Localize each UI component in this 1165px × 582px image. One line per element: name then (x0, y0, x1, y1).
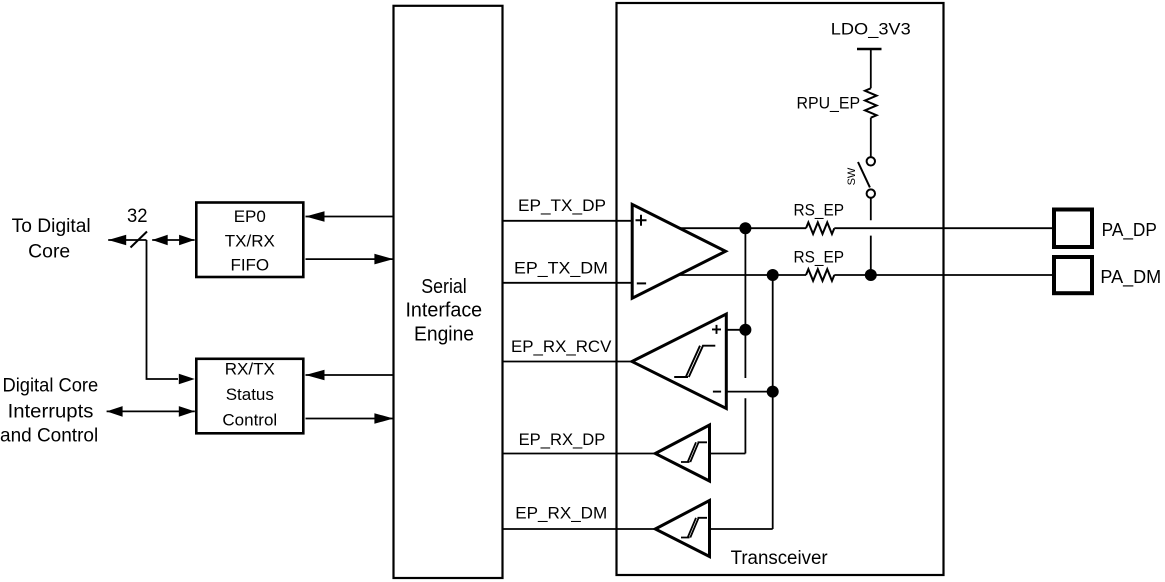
wire LDO to resistor (870, 49, 872, 88)
wire EP_TX_DM (503, 282, 631, 284)
block EP0 TX/RX FIFO (196, 203, 303, 278)
svg-text:Status: Status (226, 385, 274, 404)
svg-text:Interrupts: Interrupts (8, 402, 94, 423)
svg-text:RS_EP: RS_EP (794, 201, 845, 220)
arrowhead into RX/TX status box (179, 374, 195, 385)
svg-text:LDO_3V3: LDO_3V3 (831, 20, 911, 39)
svg-text:Control: Control (222, 411, 277, 430)
wire resistor to switch (870, 118, 872, 157)
switch SW blade (858, 162, 870, 187)
wire switch down to DM line (hops over DP line) (870, 198, 872, 275)
wire EP_RX_DM (503, 528, 656, 530)
svg-text:EP_TX_DM: EP_TX_DM (514, 259, 608, 278)
wire DP to PA_DP (834, 227, 1052, 229)
svg-text:EP0: EP0 (234, 207, 266, 226)
wire double arrow bus to EP0 FIFO (152, 239, 194, 241)
svg-text:Serial: Serial (421, 276, 467, 298)
switch SW bottom contact (867, 189, 875, 197)
node - input junction (767, 386, 779, 398)
svg-text:TX/RX: TX/RX (225, 231, 275, 250)
buffer EP_RX_DM receiver (655, 501, 709, 557)
svg-text:Engine: Engine (414, 324, 474, 346)
svg-text:Transceiver: Transceiver (731, 548, 829, 569)
label Digital Core Interrupts and Control (0, 376, 98, 447)
svg-text:32: 32 (127, 206, 148, 227)
node DM junction (767, 269, 779, 281)
wire DM buffer input from rail (710, 528, 773, 530)
svg-text:PA_DP: PA_DP (1102, 219, 1157, 241)
wire EP_RX_DP (503, 453, 656, 455)
wire double arrow digital core interrupts to status box (107, 410, 195, 412)
svg-text:To Digital: To Digital (12, 216, 91, 237)
wire arrow EP0 to SIE (306, 258, 394, 260)
svg-text:EP_TX_DP: EP_TX_DP (518, 196, 606, 215)
svg-text:Digital Core: Digital Core (3, 376, 99, 397)
svg-text:EP_RX_DP: EP_RX_DP (519, 430, 606, 449)
wire TX driver DP output (680, 227, 806, 229)
wire receiver - input (726, 391, 772, 393)
switch SW top contact (867, 157, 875, 165)
svg-text:RPU_EP: RPU_EP (797, 94, 861, 113)
power rail LDO_3V3 bar (857, 48, 882, 51)
svg-text:EP_RX_DM: EP_RX_DM (515, 504, 607, 523)
wire arrow RX/TX status to SIE (306, 418, 394, 420)
arrowhead bus left (108, 235, 126, 245)
node + input junction (739, 324, 751, 336)
node switch/DM junction (865, 269, 877, 281)
wire bus to digital core (108, 239, 146, 241)
wire EP_RX_RCV (503, 361, 632, 363)
svg-text:FIFO: FIFO (230, 256, 269, 275)
wire DP buffer input from rail (710, 453, 746, 455)
wire receiver + input (726, 329, 745, 331)
svg-text:RX/TX: RX/TX (225, 360, 275, 379)
pad PA_DM (1054, 257, 1092, 293)
svg-text:RS_EP: RS_EP (794, 248, 845, 267)
wire DM vertical rail (772, 275, 774, 529)
op-amp TX driver (632, 204, 725, 298)
svg-text:Core: Core (28, 242, 70, 263)
label To Digital Core (12, 216, 91, 263)
svg-text:PA_DM: PA_DM (1100, 266, 1161, 288)
wire DM to PA_DM (834, 274, 1052, 276)
block Serial Interface Engine (394, 6, 503, 578)
svg-text:SW: SW (846, 167, 858, 185)
svg-text:EP_RX_RCV: EP_RX_RCV (511, 337, 612, 356)
op-amp RX receiver (comparator) (632, 314, 726, 409)
block Transceiver box (617, 3, 944, 575)
wire arrow SIE to EP0 (306, 216, 394, 218)
svg-text:and Control: and Control (0, 425, 98, 446)
svg-text:Interface: Interface (405, 300, 482, 322)
wire TX driver DM output (678, 274, 806, 276)
node DP junction (739, 222, 751, 234)
wire vertical from bus down to status control (147, 240, 179, 379)
wire EP_TX_DP (503, 220, 631, 222)
block RX/TX Status Control (196, 359, 303, 434)
pad PA_DP (1054, 210, 1092, 248)
buffer EP_RX_DP receiver (655, 425, 709, 481)
resistor RS_EP (DM) (806, 269, 834, 281)
bus slash (131, 232, 148, 248)
resistor RPU_EP (865, 88, 877, 117)
wire DP vertical rail (744, 228, 746, 453)
resistor RS_EP (DP) (806, 222, 834, 234)
wire arrow SIE to RX/TX status (306, 374, 394, 376)
